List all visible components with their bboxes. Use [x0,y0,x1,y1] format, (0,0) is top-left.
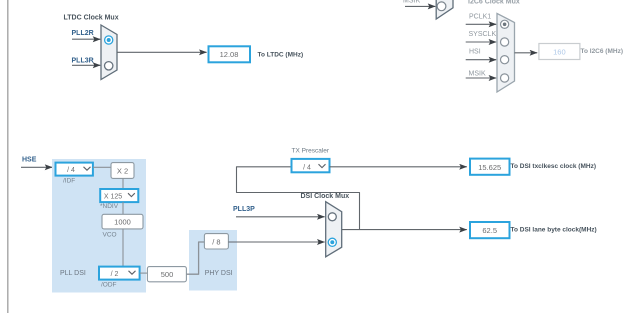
radio selected PHY DSI /8 [328,238,336,246]
mux I2C6 Clock Mux (disabled) [497,13,515,92]
box VCO 1000 [102,214,143,229]
mux LTDC Clock Mux [101,25,117,80]
wire MSIK to I2C6 mux [466,77,497,79]
value box To I2C6 160 (disabled) [539,44,580,60]
prescaler TX dropdown /4 [292,159,330,172]
svg-text:MSIK: MSIK [403,0,420,5]
svg-text:To I2C6 (MHz): To I2C6 (MHz) [581,48,624,55]
svg-text:500: 500 [161,270,174,279]
svg-text:DSI Clock Mux: DSI Clock Mux [301,193,350,200]
wire X2 down to *NDIV [122,178,124,189]
svg-text:*NDIV: *NDIV [100,203,119,210]
panel left border [7,0,9,313]
svg-text:PLL3P: PLL3P [233,206,255,213]
wire /8 to DSI mux bottom input [228,241,324,243]
wire feedback from DSI mux output to TX Prescaler [237,167,360,230]
wire LTDC mux output to LTDC value box [117,51,207,53]
svg-text:15.625: 15.625 [478,163,501,172]
wire PLL3R to LTDC mux [72,64,100,66]
wire TX Prescaler to txclkesc value box [330,166,467,168]
divider /ODF dropdown /2 [99,267,140,280]
block PLL DSI [52,159,146,293]
svg-text:/ 4: / 4 [303,165,311,172]
svg-text:VCO: VCO [103,232,117,239]
svg-text:I2C6 Clock Mux: I2C6 Clock Mux [468,0,520,6]
radio selected PLL2R [105,36,113,44]
value box To DSI lane byte 62.5 [470,222,510,238]
svg-text:PHY DSI: PHY DSI [205,270,233,277]
svg-text:62.5: 62.5 [482,226,497,235]
svg-text:PLL DSI: PLL DSI [60,270,86,277]
wire /IDF to X2 [93,166,111,168]
svg-text:X 125: X 125 [104,194,122,201]
wire HSI to I2C6 mux [466,59,497,61]
radio unselected PLL3P [328,213,336,221]
divider /IDF dropdown /4 [56,163,93,176]
radio unselected SYSCLK [501,38,509,46]
svg-text:PLL2R: PLL2R [72,30,94,37]
mux partial (cut off at top) [436,0,453,19]
wire PLL3P to DSI mux [236,216,325,218]
radio unselected HSI [501,56,509,64]
wire DSI mux output to lane byte value box [342,229,467,231]
svg-text:/IDF: /IDF [63,178,75,185]
svg-text:LTDC Clock Mux: LTDC Clock Mux [64,15,119,22]
radio selected PCLK1 (gray) [501,20,509,28]
radio unselected MSIK [437,2,446,11]
box /8 [204,234,228,249]
block PHY DSI [189,230,237,291]
svg-text:To DSI txclkesc clock (MHz): To DSI txclkesc clock (MHz) [511,163,597,170]
svg-text:1000: 1000 [114,218,131,227]
wire I2C6 mux output to I2C6 value box [515,52,538,54]
wire 500 to PHY DSI /8 [186,242,204,274]
svg-text:HSI: HSI [469,49,481,56]
svg-text:MSIK: MSIK [469,71,486,78]
svg-text:To LTDC (MHz): To LTDC (MHz) [258,52,304,59]
svg-text:/ 8: / 8 [212,238,220,247]
svg-text:/ 4: / 4 [67,167,75,174]
svg-text:/ODF: /ODF [101,281,117,288]
box 500 [147,267,186,282]
svg-text:TX Prescaler: TX Prescaler [292,148,330,155]
value box To DSI txclkesc 15.625 [470,159,510,175]
svg-text:/ 2: / 2 [111,271,119,278]
wire MSIK to cut-off mux [405,5,435,7]
wire HSE to PLL DSI /IDF [21,166,52,168]
svg-text:PLL3R: PLL3R [72,58,94,65]
svg-text:SYSCLK: SYSCLK [469,31,497,38]
multiplier *NDIV dropdown X 125 [100,189,138,202]
wire /ODF to 500 box [140,272,148,274]
box X 2 [111,163,134,179]
svg-text:160: 160 [553,47,566,56]
wire VCO down to /ODF [122,229,124,267]
wire PCLK1 to I2C6 mux [466,23,497,25]
wire PLL2R to LTDC mux [72,38,100,40]
svg-text:To DSI lane byte clock(MHz): To DSI lane byte clock(MHz) [511,226,597,233]
svg-text:HSE: HSE [22,157,37,164]
wire *NDIV down to VCO [122,202,124,214]
svg-text:PCLK1: PCLK1 [469,14,491,21]
wire SYSCLK to I2C6 mux [466,41,497,43]
svg-text:12.08: 12.08 [220,50,239,59]
svg-text:X 2: X 2 [117,167,128,176]
radio unselected PLL3R [105,62,113,70]
radio unselected MSIK [501,74,509,82]
value box To LTDC 12.08 [209,46,251,62]
mux DSI Clock Mux [326,202,342,257]
